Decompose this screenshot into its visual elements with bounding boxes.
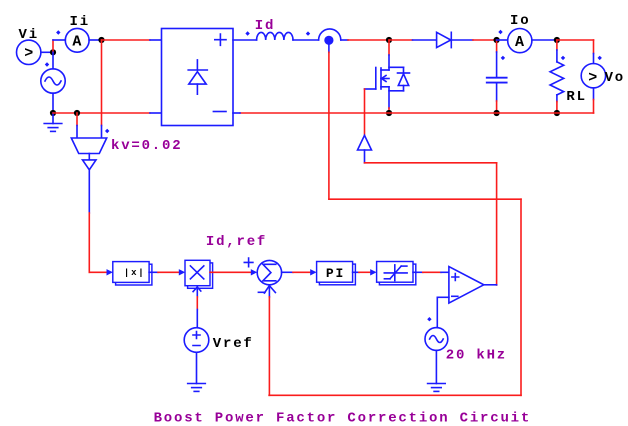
mosfet drain wire [388, 40, 390, 55]
ground under Vref [196, 352, 198, 383]
junction dot [386, 110, 392, 116]
wire Vo down (red) [593, 88, 595, 100]
gating buffer triangle [358, 135, 372, 150]
svg-text:Io: Io [510, 13, 530, 29]
wire Vi to node [41, 51, 53, 53]
wire corner to ammeter [53, 39, 65, 41]
source 20 kHz [425, 328, 448, 351]
source Vref [184, 328, 209, 353]
junction dot [554, 37, 560, 43]
diamond markers [45, 30, 602, 322]
svg-text:>: > [24, 45, 35, 62]
wire to Vo corner (red) [557, 39, 594, 41]
mult bottom input arrow [193, 287, 201, 292]
bridge bottom stub [150, 112, 162, 114]
svg-text:A: A [515, 34, 526, 51]
bottom rail left (red) [53, 112, 150, 114]
inductor Id [257, 32, 293, 40]
wire feedback bottom (red) [269, 394, 521, 396]
resistor RL [556, 40, 558, 50]
plus sign at summer [244, 258, 253, 267]
AC source Vs [52, 52, 54, 69]
minus sign at summer [258, 291, 265, 293]
mosfet source wire [388, 87, 390, 108]
bridge plus [215, 34, 226, 45]
comparator minus input wire [437, 296, 449, 298]
junction dot [554, 110, 560, 116]
junction dot [50, 49, 56, 55]
junction dot [494, 110, 500, 116]
ammeter Ii [65, 28, 89, 52]
svg-text:A: A [72, 34, 83, 51]
ground [52, 113, 54, 124]
mosfet Q [376, 67, 410, 91]
node (current probe point) [324, 36, 333, 45]
capacitor C [496, 40, 498, 52]
svg-text:Vref: Vref [213, 336, 254, 352]
wire down to kv sensor (red) [101, 40, 103, 126]
wire mult to summer [210, 271, 251, 273]
kv output arrow [88, 154, 90, 160]
svg-text:Vo: Vo [605, 70, 625, 86]
comparator op-amp [449, 267, 484, 304]
kv sensor left input [76, 113, 78, 126]
multiplier block [188, 263, 213, 288]
wire arc to mosfet junction [341, 39, 348, 41]
summer [257, 260, 281, 284]
ground under 20 kHz [435, 350, 437, 383]
svg-text:|x|: |x| [124, 268, 146, 278]
junction dot [386, 37, 392, 43]
wire bridge to inductor [233, 39, 257, 41]
wire diode to cap junction [451, 39, 473, 41]
svg-text:Id: Id [255, 18, 275, 34]
bridge input stub [150, 39, 162, 41]
voltmeter Vo [581, 63, 605, 87]
mosfet gate wire [365, 88, 376, 90]
wire limiter to comparator [413, 271, 423, 273]
wire inductor to node arc [293, 39, 319, 41]
abs block |x| [116, 264, 152, 285]
junction dot [50, 110, 56, 116]
svg-text:RL: RL [566, 89, 586, 105]
wire hop arc [319, 29, 341, 40]
svg-text:PI: PI [326, 266, 345, 281]
diode bridge box [162, 29, 234, 126]
svg-text:Ii: Ii [70, 14, 90, 30]
wire abs to mult [149, 271, 158, 273]
wire feedback right down (red) [520, 199, 522, 395]
junction dot [494, 37, 500, 43]
PI block [319, 264, 355, 285]
wire kv down to abs [88, 170, 90, 213]
svg-text:>: > [588, 69, 599, 86]
wire feedback across (red) [329, 198, 521, 200]
bridge internal diode [196, 60, 198, 70]
wire node feedback down (red) [328, 52, 330, 199]
limiter block [379, 264, 415, 285]
wire dot up (red) [52, 40, 54, 52]
wire gate feedback (red) [365, 162, 497, 164]
junction dot [98, 37, 104, 43]
bridge bottom right stub [233, 112, 240, 114]
wire to diode [389, 39, 413, 41]
svg-text:kv=0.02: kv=0.02 [111, 138, 182, 154]
bottom rail right (red) [240, 112, 594, 114]
wire summer to PI [282, 271, 293, 273]
kv sensor [71, 138, 106, 154]
wire to bridge (red) [102, 39, 151, 41]
svg-text:20 kHz: 20 kHz [446, 348, 507, 364]
diode D [437, 32, 451, 47]
comparator output wire [484, 284, 497, 286]
summer bottom input arrow [264, 286, 275, 293]
svg-text:Boost Power Factor Correction: Boost Power Factor Correction Circuit [154, 410, 531, 426]
wire PI to limiter [353, 271, 359, 273]
svg-text:Id,ref: Id,ref [206, 234, 267, 250]
wire node stub down [328, 45, 330, 52]
voltmeter Vi [17, 40, 41, 64]
junction dot [74, 110, 80, 116]
ammeter Io [497, 39, 508, 41]
wire ammeter out [89, 39, 101, 41]
bridge minus [213, 111, 226, 113]
